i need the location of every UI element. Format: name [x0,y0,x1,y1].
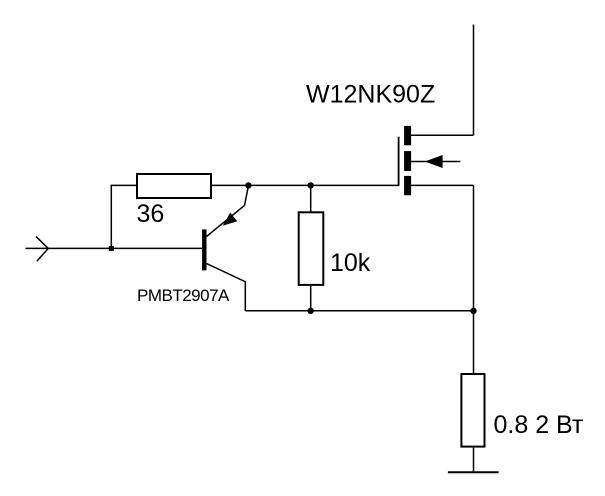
svg-text:PMBT2907A: PMBT2907A [137,286,230,305]
svg-text:10k: 10k [330,249,371,277]
input arrow node IN [36,236,48,261]
ground [448,471,499,473]
wire R3 to ground [473,448,475,473]
transistor Q1 emitter arrow [223,213,237,226]
mosfet U1 drain bar [404,126,411,145]
junction dot node2-right [470,308,476,314]
wire source down to node2 [473,185,475,310]
wire drain horizontal [411,134,474,136]
mosfet U1 gate line [398,137,400,186]
junction dot node1-R2 [308,182,314,188]
transistor Q1 collector wire [207,264,246,311]
svg-text:36: 36 [137,200,165,228]
resistor R1 [137,174,211,198]
resistor R3 [461,374,484,447]
transistor Q1 emitter wire [207,186,249,237]
svg-text:0.8 2 Вт: 0.8 2 Вт [494,411,584,439]
mosfet U1 body arrow head [425,155,443,168]
junction dot node1-emitter [245,182,251,188]
mosfet U1 body bar [404,151,411,171]
junction dot A [109,246,114,251]
mosfet U1 body arrow wire [411,161,460,163]
wire source horizontal [411,184,474,186]
resistor R2 [299,212,324,285]
wire R2 bottom [310,286,312,311]
mosfet U1 source bar [404,176,411,195]
wire node1 horizontal (R1 right to gate) [212,184,399,186]
wire node1 to R2 top [310,185,312,212]
wire junction A up to R1 [111,185,136,248]
svg-text:W12NK90Z: W12NK90Z [306,81,435,109]
wire input horizontal [26,247,203,249]
transistor Q1 base bar [202,229,206,270]
wire bottom node2 horizontal [245,310,473,312]
junction dot node2-R2 [308,308,314,314]
wire drain top vertical [473,25,475,136]
wire node2 to R3 [473,311,475,373]
